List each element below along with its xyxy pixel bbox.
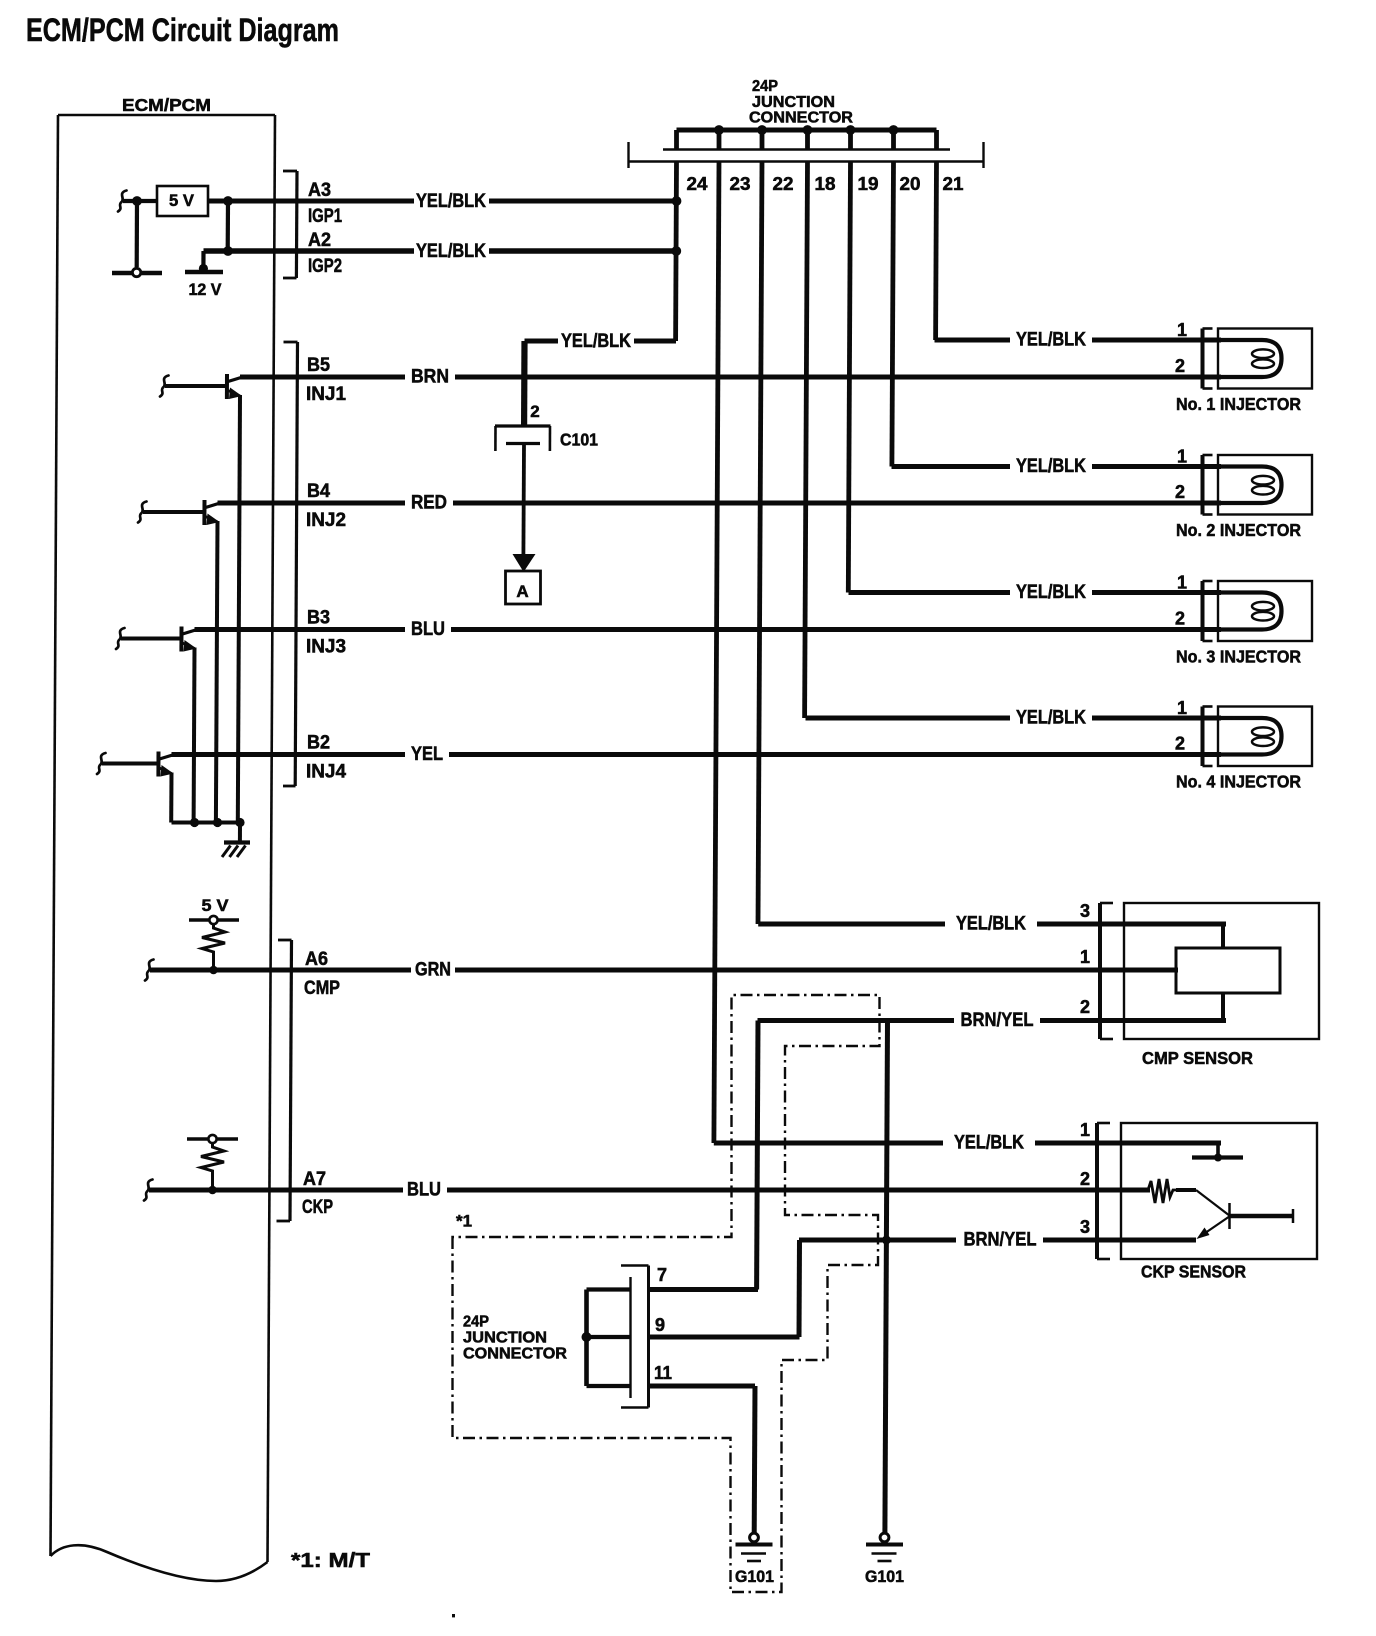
junction dot bus pin 19 — [846, 125, 856, 135]
capacitor C101 — [495, 426, 551, 451]
chassis ground symbol — [222, 843, 250, 858]
label YEL on B2 wire — [405, 745, 449, 765]
wire junction column pin 19 — [848, 130, 853, 151]
CKP internal resistor — [1148, 1179, 1178, 1203]
svg-text:IGP2: IGP2 — [308, 256, 342, 277]
label YEL/BLK at CKP pin 1 — [943, 1133, 1035, 1153]
CKP internal shield ground — [1192, 1143, 1243, 1162]
svg-text:24: 24 — [687, 174, 708, 194]
svg-text:YEL/BLK: YEL/BLK — [1016, 330, 1086, 351]
injector 1 box — [1218, 329, 1312, 389]
wire A6 GRN to CMP sensor — [150, 968, 1178, 973]
CMP sensor inner element — [1176, 924, 1280, 1021]
connector bracket B5-B2 — [283, 342, 298, 786]
junction dot at 5V input — [132, 196, 142, 206]
ground G101 left — [736, 1533, 773, 1561]
svg-text:C101: C101 — [560, 430, 598, 450]
svg-text:1: 1 — [1177, 447, 1187, 467]
svg-text:No. 4 INJECTOR: No. 4 INJECTOR — [1176, 772, 1301, 792]
svg-text:B3: B3 — [307, 608, 330, 629]
svg-text:A: A — [516, 582, 528, 601]
svg-text:IGP1: IGP1 — [308, 206, 342, 227]
injector 2 box — [1218, 455, 1312, 515]
svg-text:1: 1 — [1080, 947, 1090, 967]
wire YEL/BLK to injector 4 pin 1 — [806, 716, 1222, 721]
ground G symbol below 5V input — [112, 268, 162, 276]
svg-text:BRN: BRN — [411, 367, 449, 388]
label BRN/YEL at CKP pin 3 — [956, 1230, 1043, 1250]
resistor pull-up CMP — [202, 924, 225, 970]
wire base of Q1 INJ1 driver — [165, 384, 227, 388]
svg-text:24P: 24P — [463, 1314, 489, 1331]
wire junction pin 9 — [649, 1335, 800, 1340]
label YEL/BLK injector 1 — [1010, 330, 1092, 350]
wire squiggle to 5V box — [123, 199, 158, 203]
junction dot right of 5V box — [223, 196, 233, 206]
dash-dot boundary M/T option region — [453, 995, 880, 1592]
svg-text:No. 1 INJECTOR: No. 1 INJECTOR — [1176, 394, 1301, 414]
svg-text:B4: B4 — [307, 481, 330, 502]
wire bus to chassis ground — [238, 823, 242, 843]
svg-text:G101: G101 — [865, 1567, 904, 1586]
wire drop to capacitor C101 — [521, 341, 528, 425]
wire YEL/BLK to injector 2 pin 1 — [892, 464, 1222, 469]
svg-text:BLU: BLU — [407, 1180, 441, 1201]
ground G101 right — [866, 1533, 903, 1561]
svg-text:3: 3 — [1080, 1217, 1090, 1237]
wire riser tee to CKP pin 3 and ground — [886, 1021, 887, 1241]
terminal squiggle A6 feed — [145, 960, 154, 981]
connector bracket injector 1 — [1203, 329, 1213, 389]
wire riser CMP pin2 to junction pin 7 — [757, 1021, 758, 1290]
CKP pickup coil symbol — [1196, 1190, 1293, 1239]
svg-text:19: 19 — [858, 174, 879, 194]
svg-text:11: 11 — [654, 1363, 672, 1383]
label YEL/BLK injector 3 — [1010, 583, 1092, 603]
svg-text:3: 3 — [1080, 901, 1090, 921]
label YEL/BLK injector 4 — [1010, 708, 1092, 728]
svg-text:20: 20 — [900, 174, 921, 194]
jumper bar pins 7-9-11 — [587, 1290, 631, 1387]
label BLU on B3 wire — [405, 620, 451, 640]
junction dot A3 at column 24 — [672, 196, 682, 206]
svg-text:CONNECTOR: CONNECTOR — [463, 1346, 567, 1363]
label BLU on A7 wire — [403, 1180, 447, 1200]
svg-text:RED: RED — [411, 493, 447, 514]
wire junction pin 7 — [649, 1287, 759, 1292]
wire riser junction pin 9 — [797, 1240, 803, 1337]
svg-text:9: 9 — [655, 1315, 665, 1335]
svg-text:A2: A2 — [308, 230, 331, 251]
svg-text:BLU: BLU — [411, 619, 445, 640]
svg-text:21: 21 — [943, 174, 964, 194]
label YEL/BLK on A2 wire — [414, 241, 489, 261]
junction dot A2 at column 24 — [671, 246, 681, 256]
terminal squiggle Q2 INJ2 driver base — [138, 502, 147, 523]
wire from dot down to 12V node — [226, 201, 231, 251]
svg-text:YEL/BLK: YEL/BLK — [956, 914, 1026, 935]
svg-text:24P: 24P — [752, 78, 778, 95]
svg-text:A3: A3 — [308, 180, 331, 201]
connector bracket A3-A2 — [283, 171, 297, 278]
junction dot bus pin 22 — [757, 125, 767, 135]
svg-text:YEL/BLK: YEL/BLK — [1016, 456, 1086, 477]
junction connector bus bar — [677, 128, 937, 133]
svg-text:No. 2 INJECTOR: No. 2 INJECTOR — [1176, 520, 1301, 540]
junction dot emitter bus 1 — [190, 818, 199, 827]
junction dot emitter bus 3 — [235, 818, 244, 827]
wire A3 IGP1 YEL/BLK — [208, 199, 677, 204]
wire BRN/YEL CMP pin 2 — [758, 1018, 1227, 1023]
transistor Q2 INJ2 driver — [204, 500, 219, 525]
junction dot bus pin 20 — [889, 125, 899, 135]
wire junction column pin 24 — [674, 130, 679, 151]
svg-text:1: 1 — [1177, 698, 1187, 718]
wire YEL/BLK to injector 1 pin 1 — [935, 338, 1222, 343]
wire A7 BLU to CKP sensor — [149, 1188, 1150, 1193]
wire YEL/BLK column 22 to CMP pin 3 — [758, 922, 1226, 927]
junction connector body bottom — [621, 1266, 649, 1408]
connector bracket CMP — [1100, 903, 1113, 1039]
injector 1 coil — [1220, 340, 1282, 377]
svg-text:CONNECTOR: CONNECTOR — [749, 110, 853, 127]
svg-text:2: 2 — [1175, 734, 1185, 754]
regulator 5V box — [157, 186, 208, 216]
terminal squiggle A7 feed — [144, 1180, 153, 1201]
svg-text:YEL/BLK: YEL/BLK — [1016, 582, 1086, 603]
wire B2 YEL to injector — [172, 752, 1222, 757]
wire emitter drop Q4 INJ4 driver — [169, 773, 173, 823]
injector 3 box — [1218, 581, 1312, 641]
svg-text:G101: G101 — [735, 1567, 774, 1586]
CKP sensor box — [1121, 1123, 1317, 1259]
junction dot BRN/YEL at ground drop — [882, 1236, 891, 1245]
wire down to ground from 5V input — [135, 201, 140, 267]
connector bracket CKP — [1097, 1123, 1110, 1259]
svg-text:2: 2 — [1175, 356, 1185, 376]
label BRN on B5 wire — [405, 367, 455, 387]
injector 4 box — [1218, 707, 1312, 767]
wire emitter drop Q1 INJ1 driver — [238, 395, 240, 823]
wire CKP resistor to pickup — [1176, 1188, 1196, 1192]
speck — [452, 1614, 455, 1617]
svg-text:INJ1: INJ1 — [306, 384, 346, 405]
arrowhead to ground point A — [513, 554, 536, 572]
injector 4 coil — [1220, 718, 1282, 755]
wire junction column pin 18 — [805, 130, 810, 151]
label YEL/BLK on A3 wire — [414, 191, 489, 211]
svg-text:YEL/BLK: YEL/BLK — [1016, 708, 1086, 729]
wire base of Q4 INJ4 driver — [102, 762, 159, 766]
svg-text:INJ2: INJ2 — [306, 510, 346, 531]
svg-text:CKP SENSOR: CKP SENSOR — [1141, 1262, 1246, 1282]
label 24P JUNCTION CONNECTOR bottom — [463, 1314, 567, 1363]
label YEL/BLK injector 2 — [1010, 457, 1092, 477]
junction dot emitter bus 2 — [213, 818, 222, 827]
connector bracket injector 4 — [1203, 707, 1213, 767]
svg-text:No. 3 INJECTOR: No. 3 INJECTOR — [1176, 647, 1301, 667]
svg-text:JUNCTION: JUNCTION — [752, 94, 835, 111]
svg-text:5 V: 5 V — [202, 897, 229, 915]
svg-text:2: 2 — [1175, 609, 1185, 629]
wire YEL/BLK column 23 to CKP pin 1 — [714, 1141, 1221, 1146]
svg-text:1: 1 — [1080, 1120, 1090, 1140]
svg-text:GRN: GRN — [415, 960, 451, 981]
svg-text:5 V: 5 V — [169, 191, 195, 210]
wire B3 BLU to injector — [195, 627, 1222, 632]
wire emitter drop Q3 INJ3 driver — [192, 648, 197, 823]
svg-text:2: 2 — [1080, 1169, 1090, 1189]
wire B4 RED to injector — [218, 501, 1222, 506]
wire junction column pin 20 — [891, 130, 896, 151]
wire C101 to ground arrow — [522, 444, 526, 557]
junction dot bus pin 23 — [714, 125, 724, 135]
junction dot A6 wire — [209, 966, 218, 975]
svg-text:CKP: CKP — [302, 1197, 333, 1218]
junction connector body — [628, 142, 984, 168]
svg-text:BRN/YEL: BRN/YEL — [964, 1230, 1037, 1251]
label YEL/BLK at CMP pin 3 — [945, 914, 1037, 934]
connector bracket injector 3 — [1203, 581, 1213, 641]
svg-text:BRN/YEL: BRN/YEL — [961, 1010, 1034, 1031]
junction dot bus pin 18 — [803, 125, 813, 135]
svg-text:A6: A6 — [305, 949, 328, 970]
label BRN/YEL at CMP pin 2 — [954, 1011, 1040, 1031]
connector bracket injector 2 — [1203, 455, 1213, 515]
terminal squiggle Q4 INJ4 driver base — [97, 753, 106, 774]
svg-text:YEL/BLK: YEL/BLK — [561, 331, 631, 352]
power rail for CKP — [187, 1135, 238, 1143]
label GRN on A6 wire — [411, 960, 455, 980]
CMP sensor box — [1124, 903, 1319, 1039]
label YEL/BLK on C101 branch — [558, 331, 634, 351]
terminal squiggle Q3 INJ3 driver base — [116, 628, 125, 649]
wire A2 IGP2 YEL/BLK — [204, 248, 677, 253]
svg-text:JUNCTION: JUNCTION — [463, 1330, 547, 1347]
ground point box A — [506, 571, 541, 604]
svg-text:1: 1 — [1177, 320, 1187, 340]
wire YEL/BLK column 24 to C101 drop — [525, 339, 677, 344]
svg-text:CMP SENSOR: CMP SENSOR — [1142, 1048, 1253, 1068]
svg-text:CMP: CMP — [304, 978, 340, 999]
svg-text:22: 22 — [773, 174, 794, 194]
wire BRN/YEL CKP pin 3 — [799, 1238, 1196, 1243]
svg-text:7: 7 — [657, 1265, 667, 1285]
label 24P JUNCTION CONNECTOR top — [749, 78, 853, 127]
svg-text:23: 23 — [730, 174, 751, 194]
resistor pull-up CKP — [201, 1143, 224, 1190]
wire ground drop to G101 right — [885, 1240, 887, 1534]
junction dot A7 wire — [208, 1186, 217, 1195]
wire common emitter bus — [172, 821, 241, 825]
svg-text:ECM/PCM: ECM/PCM — [122, 95, 211, 115]
svg-text:B2: B2 — [307, 733, 330, 754]
svg-text:YEL/BLK: YEL/BLK — [416, 191, 486, 212]
terminal squiggle A3 feed — [118, 191, 127, 212]
wire junction column pin 23 — [717, 130, 722, 151]
power rail 5V for CMP — [189, 916, 239, 924]
transistor Q1 INJ1 driver — [227, 374, 242, 399]
connector bracket A6-A7 — [277, 940, 292, 1221]
svg-text:*1: M/T: *1: M/T — [291, 1550, 370, 1572]
wire junction pin 11 — [649, 1384, 756, 1389]
injector 2 coil — [1220, 467, 1282, 504]
svg-text:18: 18 — [815, 174, 836, 194]
ECM/PCM box outline — [51, 115, 276, 1581]
terminal squiggle Q1 INJ1 driver base — [160, 376, 169, 397]
junction dot on IGP2 wire — [223, 246, 233, 256]
power symbol 12V — [185, 251, 223, 273]
label RED on B4 wire — [405, 493, 453, 513]
junction dot jumper pin 9 — [582, 1332, 592, 1342]
wire junction column pin 21 — [934, 130, 939, 151]
wire base of Q2 INJ2 driver — [143, 510, 205, 514]
svg-text:INJ3: INJ3 — [306, 637, 346, 658]
svg-text:YEL/BLK: YEL/BLK — [954, 1133, 1024, 1154]
svg-text:*1: *1 — [456, 1213, 472, 1231]
wire junction pin 11 to G101 left — [752, 1386, 758, 1534]
svg-text:2: 2 — [530, 402, 539, 421]
svg-text:2: 2 — [1080, 997, 1090, 1017]
transistor Q4 INJ4 driver — [158, 752, 173, 777]
svg-text:2: 2 — [1175, 482, 1185, 502]
wire emitter drop Q2 INJ2 driver — [216, 521, 218, 823]
wire base of Q3 INJ3 driver — [121, 637, 182, 641]
svg-text:A7: A7 — [303, 1169, 326, 1190]
svg-text:12 V: 12 V — [189, 280, 223, 299]
svg-text:B5: B5 — [307, 355, 330, 376]
wire junction column pin 22 — [760, 130, 765, 151]
injector 3 coil — [1220, 593, 1282, 630]
svg-text:1: 1 — [1177, 573, 1187, 593]
transistor Q3 INJ3 driver — [181, 627, 196, 652]
svg-text:INJ4: INJ4 — [306, 762, 346, 783]
wire YEL/BLK to injector 3 pin 1 — [849, 590, 1222, 595]
svg-text:ECM/PCM Circuit Diagram: ECM/PCM Circuit Diagram — [26, 12, 339, 48]
wire B5 BRN to injector — [240, 375, 1221, 380]
svg-text:YEL/BLK: YEL/BLK — [416, 241, 486, 262]
svg-text:YEL: YEL — [411, 744, 443, 765]
